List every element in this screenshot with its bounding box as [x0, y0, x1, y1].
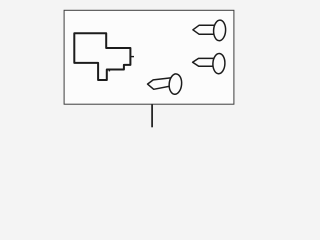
page background [0, 0, 300, 131]
screw 2 shaft [193, 58, 219, 66]
screw 3 head (tilted) [168, 73, 182, 94]
bracket tick under step [108, 70, 110, 72]
screw 2 head [212, 53, 225, 74]
leader line [151, 104, 153, 127]
outer box [64, 10, 234, 104]
screw 3 shaft (tilted) [148, 77, 177, 89]
screw 1 head [213, 20, 226, 41]
bracket tick right edge [131, 56, 134, 58]
screw 1 shaft [193, 25, 220, 34]
bracket (part outline) [74, 33, 130, 80]
